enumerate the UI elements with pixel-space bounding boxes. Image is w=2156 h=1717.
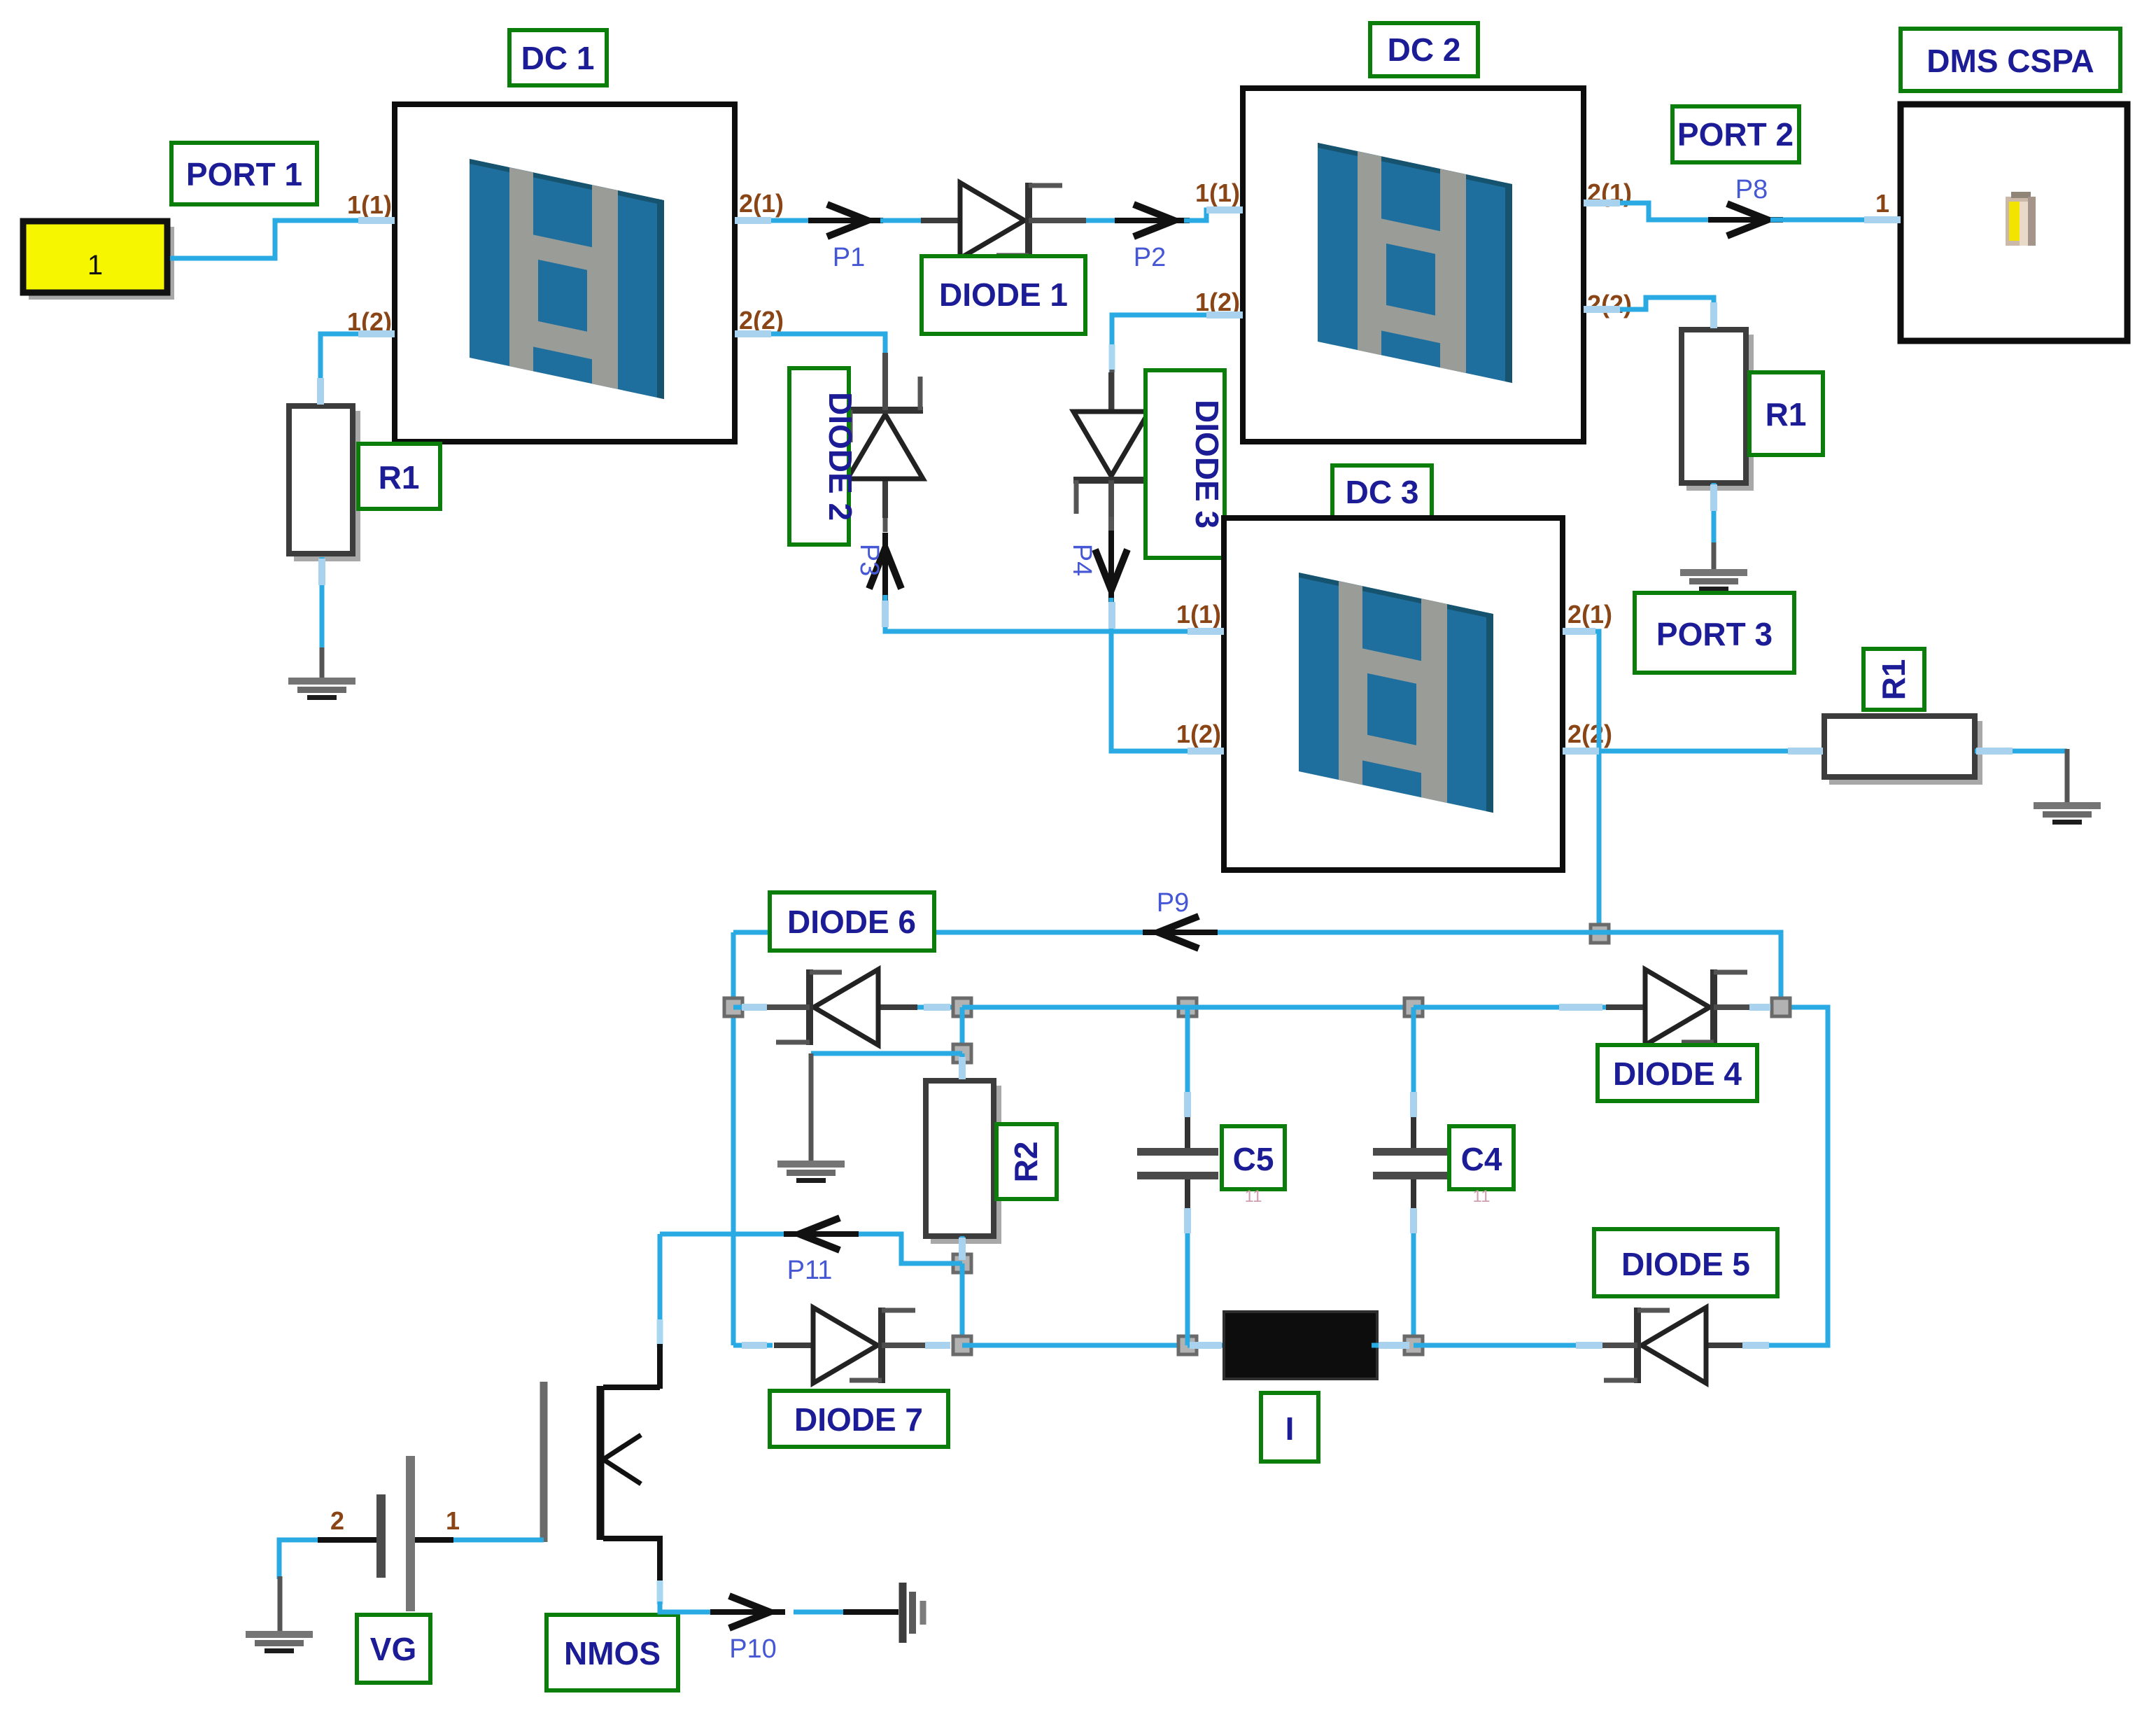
svg-text:2(1): 2(1) bbox=[1567, 600, 1612, 629]
resistor R1 (horizontal, right of DC3) bbox=[1824, 716, 1982, 785]
svg-text:2(2): 2(2) bbox=[739, 306, 784, 335]
ground lead (below DIODE6) bbox=[809, 1053, 814, 1161]
capacitor C5 bbox=[1137, 1007, 1218, 1345]
wire P11 row bbox=[660, 1234, 962, 1263]
svg-text:C5: C5 bbox=[1233, 1141, 1274, 1177]
wire row B left bbox=[733, 1005, 773, 1010]
svg-text:1(1): 1(1) bbox=[1195, 178, 1240, 207]
wire DIODE1 to P2 bbox=[1086, 218, 1128, 223]
svg-text:PORT 2: PORT 2 bbox=[1677, 116, 1794, 153]
svg-text:PORT 3: PORT 3 bbox=[1656, 616, 1773, 652]
coupler DC3 bbox=[1224, 518, 1563, 870]
label R1 (2nd) bbox=[1749, 372, 1823, 455]
wire VG to NMOS gate bbox=[448, 1538, 544, 1543]
wire DC1 1(2) to R1 bbox=[320, 334, 395, 407]
svg-text:DIODE 4: DIODE 4 bbox=[1613, 1056, 1742, 1092]
node R2 top column row B bbox=[953, 998, 971, 1016]
wire P8 to DMS CSPA bbox=[1770, 218, 1901, 223]
svg-text:R1: R1 bbox=[1875, 659, 1912, 701]
wire R2 bottom to node bbox=[960, 1236, 965, 1263]
node DIODE4 cathode bbox=[1772, 998, 1790, 1016]
diode DIODE5 (pointing left) bbox=[1580, 1308, 1745, 1383]
arrow P8 bbox=[1708, 204, 1783, 236]
svg-text:DIODE 3: DIODE 3 bbox=[1189, 400, 1225, 528]
wire DC2 1(2) to DIODE3 bbox=[1112, 315, 1243, 350]
diode DIODE7 (pointing right) bbox=[774, 1308, 939, 1383]
wire DC1 2(2) to DIODE2 bbox=[735, 334, 885, 374]
arrow P11 (left) bbox=[784, 1218, 859, 1250]
wire DC1 2(1) to P1 bbox=[735, 218, 819, 223]
wire row D left bbox=[733, 1343, 773, 1348]
wire left column down bbox=[731, 932, 736, 1345]
arrow P10 bbox=[710, 1596, 785, 1628]
node row B / C4 bbox=[1404, 998, 1423, 1016]
svg-text:C4: C4 bbox=[1461, 1141, 1502, 1177]
svg-text:2: 2 bbox=[330, 1506, 344, 1535]
wire DIODE2 to P3 bbox=[883, 518, 888, 532]
diode DIODE1 bbox=[921, 183, 1086, 258]
svg-text:P3: P3 bbox=[854, 544, 884, 576]
label DIODE 4 bbox=[1598, 1045, 1757, 1101]
label PORT 3 bbox=[1635, 593, 1794, 673]
label DC 1 bbox=[509, 30, 607, 85]
wire NMOS drain to P11 row bbox=[658, 1234, 663, 1323]
label R2 (rotated) bbox=[996, 1124, 1057, 1199]
ground (below left R1) bbox=[288, 678, 355, 700]
wire DIODE3 to P4 bbox=[1109, 517, 1114, 539]
svg-text:P11: P11 bbox=[787, 1256, 833, 1285]
svg-text:DIODE 5: DIODE 5 bbox=[1621, 1246, 1750, 1282]
coupler DC2 bbox=[1243, 88, 1584, 442]
svg-text:1(2): 1(2) bbox=[1176, 720, 1221, 748]
subcircuit box DMS CSPA bbox=[1901, 104, 2127, 341]
wire node B2 to R2 bbox=[960, 1053, 965, 1082]
svg-text:1: 1 bbox=[87, 250, 103, 281]
node DIODE6 cathode bbox=[724, 998, 742, 1016]
label NMOS bbox=[547, 1615, 678, 1690]
stub DIODE3 top bbox=[1109, 344, 1115, 372]
wire P10 to ground bbox=[794, 1610, 847, 1615]
label I bbox=[1261, 1393, 1318, 1462]
battery icon inside DMS CSPA bbox=[2006, 192, 2036, 246]
wire DIODE5 anode to right edge bbox=[1745, 1007, 1828, 1345]
resistor R1 (below DC1) bbox=[289, 406, 360, 561]
resistor R1 (below DC2 2(2)) bbox=[1682, 330, 1754, 491]
diode DIODE6 (pointing left) bbox=[752, 969, 917, 1045]
svg-text:1: 1 bbox=[446, 1506, 460, 1535]
diode DIODE2 (pointing up) bbox=[847, 353, 923, 518]
svg-text:DIODE 7: DIODE 7 bbox=[794, 1401, 923, 1438]
svg-text:DC 2: DC 2 bbox=[1388, 31, 1461, 68]
wire row B DIODE6 to C5 to C4 bbox=[962, 1005, 1414, 1010]
svg-text:VG: VG bbox=[370, 1631, 416, 1667]
svg-text:P1: P1 bbox=[833, 243, 865, 272]
svg-text:I: I bbox=[1285, 1410, 1295, 1447]
svg-text:P8: P8 bbox=[1735, 175, 1768, 204]
label R1 (3rd, rotated) bbox=[1863, 649, 1924, 710]
svg-text:1: 1 bbox=[1875, 189, 1889, 218]
svg-text:DC 1: DC 1 bbox=[521, 40, 595, 76]
pin stubs (light blue) bbox=[320, 203, 2013, 1345]
label C5 bbox=[1222, 1126, 1285, 1206]
svg-text:11: 11 bbox=[1473, 1187, 1491, 1206]
node row D / C5 bbox=[1178, 1336, 1197, 1354]
battery VG bbox=[318, 1456, 453, 1611]
label R1 (left) bbox=[358, 444, 440, 509]
transistor NMOS bbox=[544, 1382, 660, 1583]
wire I to C4 node bbox=[1372, 1343, 1414, 1348]
capacitor C4 bbox=[1373, 1007, 1454, 1345]
wire P1 to DIODE1 bbox=[880, 218, 925, 223]
wire row D C4 to DIODE5 bbox=[1414, 1343, 1602, 1348]
wire R2 bottom node to row D bbox=[960, 1263, 965, 1345]
wire VG 2 to ground bbox=[279, 1540, 318, 1579]
label PORT 2 bbox=[1672, 106, 1799, 162]
svg-text:DC 3: DC 3 bbox=[1346, 474, 1419, 510]
label C4 bbox=[1449, 1126, 1514, 1206]
svg-text:2(2): 2(2) bbox=[1587, 290, 1632, 318]
label DIODE 3 (rotated) bbox=[1146, 370, 1225, 558]
coupler DC1 bbox=[395, 104, 735, 442]
node R2 bottom bbox=[953, 1254, 971, 1273]
wire R1 (3rd) to ground bbox=[1975, 749, 2067, 754]
diode DIODE4 (pointing right) bbox=[1606, 969, 1771, 1045]
wire node to node B2 bbox=[960, 1007, 965, 1053]
wire DC2 2(2) to R1 (2nd) bbox=[1584, 297, 1714, 330]
label DMS CSPA bbox=[1901, 29, 2120, 91]
ground (below VG 2) bbox=[246, 1631, 313, 1653]
label DIODE 7 bbox=[770, 1391, 948, 1447]
node row D / R2 column bbox=[953, 1336, 971, 1354]
wire node B2 to ground stub bbox=[811, 1051, 962, 1056]
svg-text:2(2): 2(2) bbox=[1567, 720, 1612, 748]
svg-text:DIODE 6: DIODE 6 bbox=[787, 904, 916, 940]
wire row D to C5 bbox=[962, 1343, 1188, 1348]
svg-text:P9: P9 bbox=[1157, 888, 1189, 918]
node at DC3 2(1) column / P9 row bbox=[1591, 925, 1609, 943]
node B2 bbox=[953, 1044, 971, 1063]
wire P2 to DC2 pin 1(1) bbox=[1184, 210, 1243, 220]
wire P4 to DC3 1(2) bbox=[1111, 598, 1224, 751]
label DIODE 5 bbox=[1594, 1229, 1777, 1296]
svg-text:11: 11 bbox=[1245, 1187, 1262, 1206]
wire R1 (2nd) to ground bbox=[1712, 483, 1717, 546]
label DC 2 bbox=[1370, 23, 1478, 76]
wire row D C5 to I bbox=[1188, 1343, 1232, 1348]
node row D / C4 bbox=[1404, 1336, 1423, 1354]
svg-text:DMS CSPA: DMS CSPA bbox=[1926, 43, 2094, 79]
wire P3 to DC3 1(1) bbox=[885, 595, 1224, 631]
svg-text:DIODE 1: DIODE 1 bbox=[939, 276, 1068, 313]
svg-text:NMOS: NMOS bbox=[564, 1635, 661, 1672]
ground (below DIODE6) bbox=[777, 1161, 845, 1183]
wire R1 to ground bbox=[320, 557, 325, 651]
wire NMOS source to P10 bbox=[657, 1581, 663, 1604]
arrow P4 (down) bbox=[1095, 531, 1127, 605]
svg-text:DIODE 2: DIODE 2 bbox=[822, 392, 859, 521]
label VG bbox=[357, 1615, 430, 1683]
resistor R2 bbox=[926, 1081, 1001, 1244]
svg-text:R2: R2 bbox=[1008, 1142, 1044, 1183]
port source box 1 (yellow) bbox=[23, 221, 174, 300]
svg-text:R1: R1 bbox=[1766, 396, 1807, 433]
wire P9 row bbox=[733, 930, 1600, 935]
label DIODE 6 bbox=[770, 892, 934, 951]
node row B / C5 bbox=[1178, 998, 1197, 1016]
label PORT 1 bbox=[171, 143, 317, 204]
wire DC3 2(1) down to P9 node bbox=[1563, 631, 1599, 932]
ground (right-facing, end of P10) bbox=[903, 1583, 923, 1643]
wire port1 to DC1 pin 1(1) bbox=[170, 220, 395, 258]
svg-text:PORT 1: PORT 1 bbox=[186, 156, 302, 192]
wire DC3 2(2) to R1 (3rd) bbox=[1563, 749, 1827, 754]
svg-text:2(1): 2(1) bbox=[739, 189, 784, 218]
svg-text:P4: P4 bbox=[1067, 544, 1097, 576]
diode DIODE3 (pointing down) bbox=[1073, 372, 1149, 538]
svg-text:1(1): 1(1) bbox=[1176, 600, 1221, 629]
arrow P2 bbox=[1115, 204, 1190, 237]
svg-text:P10: P10 bbox=[729, 1634, 777, 1664]
svg-text:P2: P2 bbox=[1134, 243, 1166, 272]
arrow P3 (up) bbox=[869, 533, 901, 608]
arrow P1 bbox=[808, 204, 883, 237]
label DC 3 bbox=[1332, 465, 1432, 518]
label DIODE 2 (rotated) bbox=[789, 368, 859, 545]
ground (above PORT 3) bbox=[1680, 569, 1747, 591]
wire DC2 2(1) to P8 bbox=[1584, 203, 1714, 220]
block I (black) bbox=[1224, 1312, 1377, 1379]
label DIODE 1 bbox=[922, 256, 1085, 334]
svg-text:1(1): 1(1) bbox=[347, 190, 392, 219]
arrow P9 (left) bbox=[1143, 916, 1218, 948]
wire DIODE6 anode to node bbox=[917, 1005, 962, 1010]
wire row B C4 to DIODE4 bbox=[1414, 1005, 1609, 1010]
ground (right of R1 3rd) bbox=[2034, 802, 2101, 825]
svg-text:R1: R1 bbox=[379, 459, 420, 496]
wire P9 node to DIODE4 column bbox=[1600, 932, 1781, 1000]
